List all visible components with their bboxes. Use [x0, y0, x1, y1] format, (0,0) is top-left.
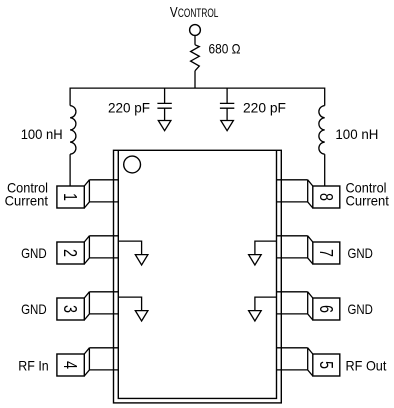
ground arrow internal pin 2 — [118, 241, 148, 265]
svg-text:220 pF: 220 pF — [108, 99, 150, 115]
svg-text:GND: GND — [21, 301, 47, 317]
svg-text:1: 1 — [60, 193, 80, 201]
svg-text:GND: GND — [348, 245, 373, 261]
ground arrow internal pin 3 — [118, 297, 148, 321]
ground arrow internal pin 6 — [249, 297, 277, 321]
svg-text:RF Out: RF Out — [346, 358, 387, 374]
pin 4 — [57, 348, 118, 376]
IC body outer outline — [114, 150, 282, 403]
svg-text:Current: Current — [346, 193, 389, 209]
pin 5 — [277, 348, 340, 376]
wire resistor to bus — [194, 71, 196, 88]
svg-text:5: 5 — [316, 361, 336, 369]
label Control Current pin1 — [5, 180, 48, 209]
label VCONTROL — [170, 4, 219, 21]
wire terminal to resistor — [194, 35, 196, 44]
wire inductor L2 to pin 8 — [324, 154, 326, 186]
pin 8 — [277, 180, 340, 208]
svg-text:100 nH: 100 nH — [335, 126, 378, 142]
capacitor 220 pF left — [157, 88, 171, 131]
IC body inner wall lines — [118, 150, 276, 398]
node VCONTROL terminal circle — [190, 25, 201, 36]
capacitor 220 pF right — [220, 88, 234, 131]
svg-text:100 nH: 100 nH — [21, 126, 63, 142]
svg-text:220 pF: 220 pF — [243, 99, 286, 115]
label Control Current pin8 — [346, 180, 389, 209]
pin 2 — [57, 236, 118, 264]
svg-text:4: 4 — [60, 361, 80, 369]
wire inductor L1 to pin 1 — [69, 154, 71, 186]
svg-text:Current: Current — [5, 193, 48, 209]
pin 3 — [57, 292, 118, 320]
pin 1 — [57, 180, 118, 208]
inductor L1 100 nH left — [70, 106, 76, 155]
svg-text:3: 3 — [60, 305, 80, 313]
svg-text:680 Ω: 680 Ω — [209, 41, 241, 57]
svg-text:7: 7 — [316, 249, 336, 257]
svg-text:2: 2 — [60, 249, 80, 257]
resistor 680 ohm — [191, 45, 200, 71]
svg-text:RF In: RF In — [18, 358, 48, 374]
svg-text:8: 8 — [316, 193, 336, 201]
svg-text:GND: GND — [348, 301, 373, 317]
wire bus horizontal with corners — [70, 88, 325, 106]
svg-text:6: 6 — [316, 305, 336, 313]
inductor L2 100 nH right — [319, 106, 325, 155]
ground arrow internal pin 7 — [249, 241, 277, 265]
pin 7 — [277, 236, 340, 264]
pin 1 indicator circle — [124, 156, 141, 173]
svg-text:V: V — [170, 4, 178, 21]
svg-text:GND: GND — [21, 245, 47, 261]
svg-text:CONTROL: CONTROL — [178, 8, 219, 20]
pin 6 — [277, 292, 340, 320]
